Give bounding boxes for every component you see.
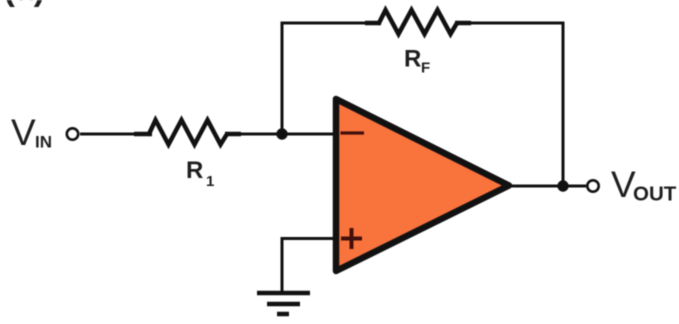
- svg-text:F: F: [421, 60, 430, 77]
- svg-text:V: V: [11, 112, 36, 153]
- svg-text:1: 1: [206, 173, 214, 190]
- svg-text:(a): (a): [4, 0, 46, 8]
- svg-text:OUT: OUT: [633, 183, 677, 206]
- svg-text:IN: IN: [35, 133, 52, 152]
- svg-text:R: R: [404, 46, 421, 73]
- svg-text:R: R: [186, 157, 203, 184]
